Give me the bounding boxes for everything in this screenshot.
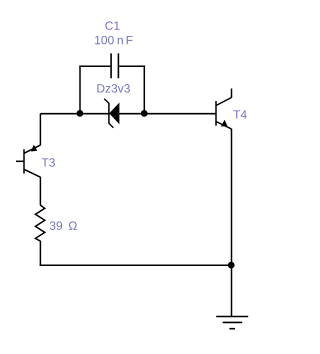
transistor T3 [24, 145, 40, 177]
wire capacitor right lead [119, 65, 145, 67]
label resistor value 39 ohm [50, 221, 62, 230]
wire right capacitor branch [143, 65, 145, 113]
zener diode Dz3v3 [104, 99, 119, 128]
node junction right [141, 110, 148, 117]
label C1 [105, 21, 119, 30]
wire left capacitor branch [79, 65, 81, 113]
ground [216, 317, 248, 329]
wire T4 emitter down [231, 129, 233, 266]
wire to ground [231, 265, 233, 316]
wire T3 lower lead to resistor [39, 177, 41, 206]
label T4 [233, 110, 246, 118]
wire T3 base stub [16, 160, 24, 162]
transistor T4 emitter arrow [221, 120, 228, 127]
label C1 value 100 nF [95, 36, 114, 45]
wire T4 collector stub [231, 89, 233, 98]
node junction bottom [228, 262, 235, 269]
transistor T3 emitter arrow [31, 145, 37, 152]
wire T3 upper lead to rail [39, 114, 41, 146]
node junction left [77, 110, 84, 117]
wire capacitor left lead [80, 65, 110, 67]
label T3 [42, 158, 55, 167]
capacitor C1 [111, 53, 118, 78]
transistor T4 [216, 98, 232, 130]
wire bottom rail [40, 264, 232, 266]
label Dz3v3 [97, 84, 130, 93]
resistor 39 ohm [35, 205, 44, 241]
wire main horizontal rail [40, 113, 216, 115]
wire resistor to bottom rail [39, 241, 41, 266]
